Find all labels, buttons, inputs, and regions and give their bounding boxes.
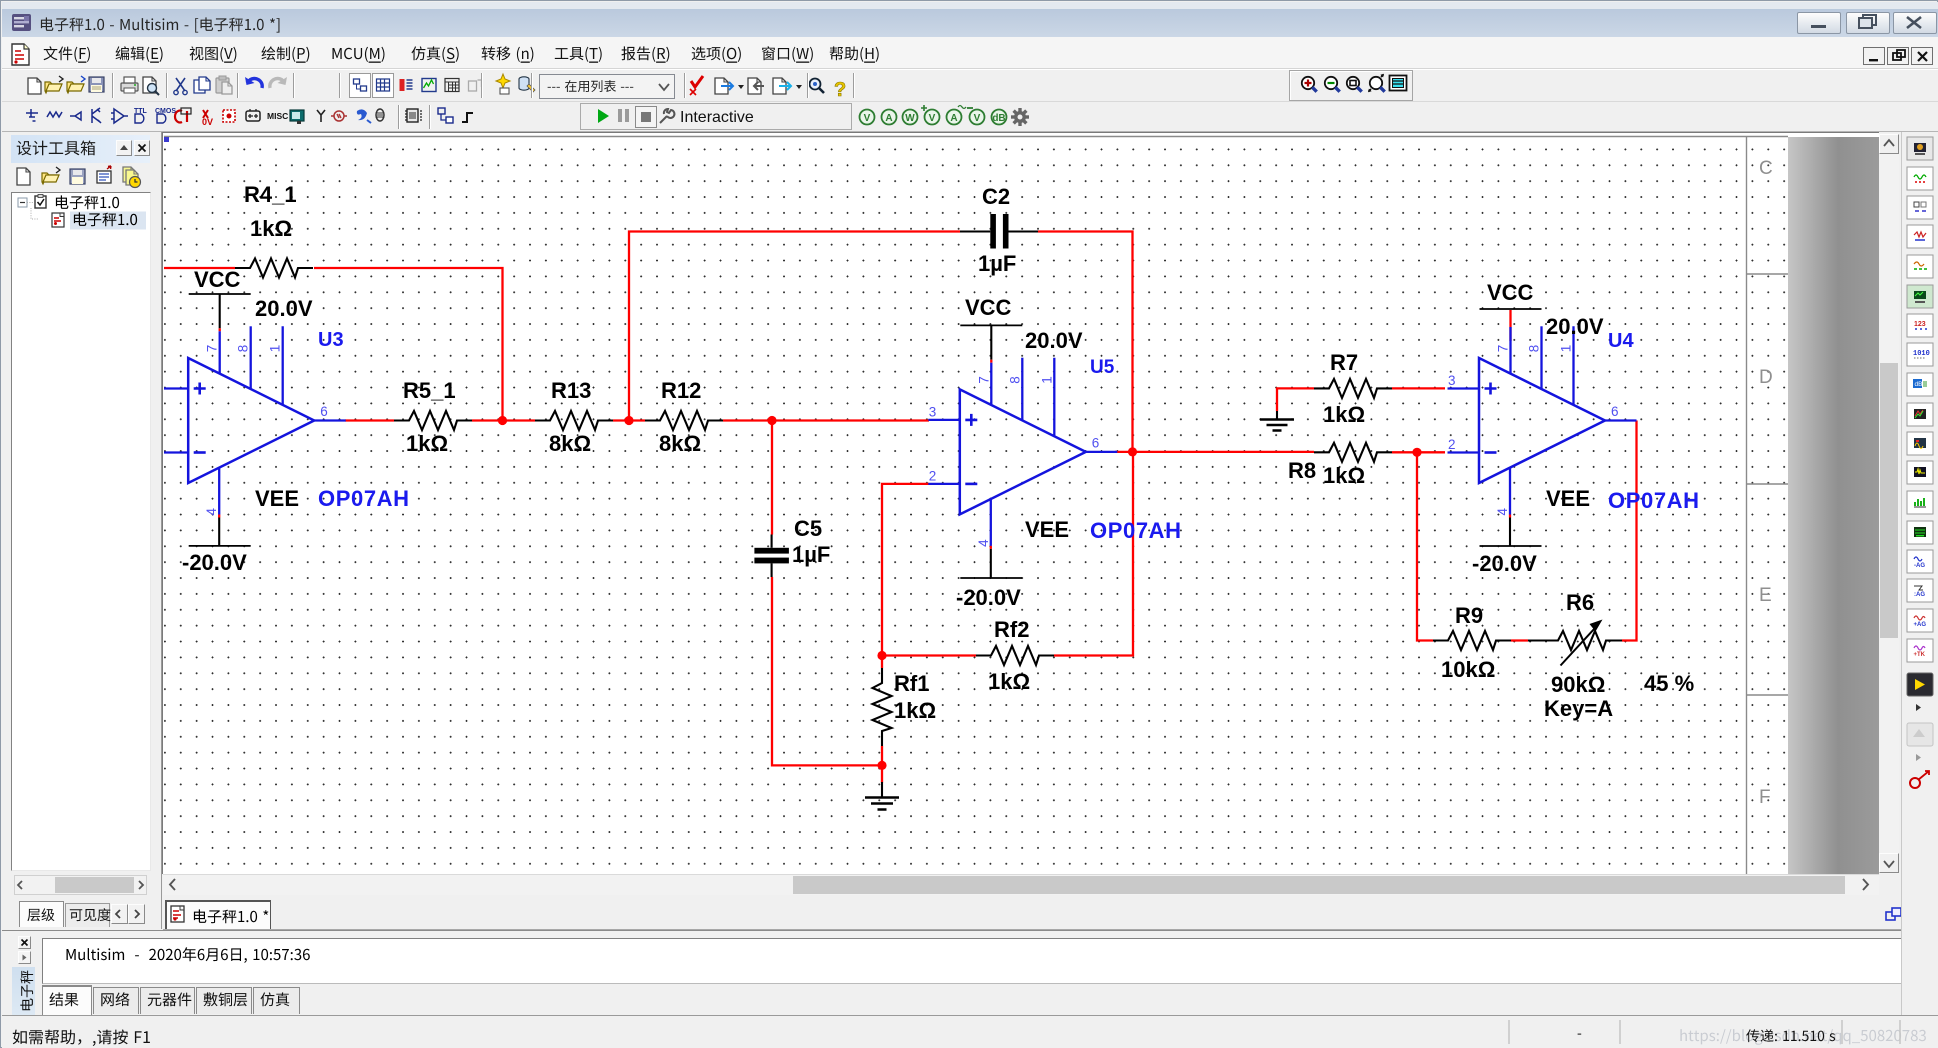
svg-text:R9: R9 (1455, 603, 1483, 628)
svg-text:3: 3 (1448, 373, 1456, 388)
svg-text:6: 6 (1092, 435, 1100, 450)
svg-text:7: 7 (976, 376, 991, 384)
svg-text:U5: U5 (1090, 357, 1115, 378)
wire: C2 to U5 output node (1038, 232, 1133, 452)
svg-text:OP07AH: OP07AH (1608, 488, 1700, 513)
svg-text:2: 2 (1448, 437, 1456, 452)
wire: node B up and over to C2 (629, 232, 960, 421)
power VEE -20.0V (U5) (956, 517, 1069, 610)
svg-text:-20.0V: -20.0V (1472, 551, 1537, 576)
status bar (2, 1015, 1938, 1048)
svg-text:R12: R12 (661, 378, 701, 403)
svg-text:7: 7 (1496, 345, 1511, 353)
power VCC 20.0V (U3) (189, 267, 313, 321)
wire: ground riser to R7 (1277, 388, 1314, 411)
wire: input net to R4_1 (164, 267, 235, 269)
svg-text:C2: C2 (982, 184, 1010, 209)
svg-text:3: 3 (929, 404, 937, 419)
op-amp U5 OP07AH (928, 325, 1181, 578)
wire: C5 bottom to Rf1 bottom node (772, 577, 882, 765)
svg-text:Rf1: Rf1 (894, 671, 929, 696)
ground (at R7) (1260, 411, 1294, 431)
svg-text:VEE: VEE (1025, 517, 1069, 542)
wire: U3 output to R5_1 (345, 419, 394, 421)
wire: feedback node to Rf1 top (881, 656, 883, 669)
capacitor C5 1µF (754, 516, 830, 577)
wire: R13 to node B to R12 (613, 419, 645, 421)
svg-text:8kΩ: 8kΩ (549, 431, 591, 456)
svg-text:1µF: 1µF (792, 542, 830, 567)
op-amp U4 OP07AH (1448, 326, 1700, 546)
resistor R5_1 1kΩ (394, 378, 472, 456)
svg-text:8: 8 (1527, 345, 1542, 353)
wire: Rf2 to U5 output node (1054, 452, 1133, 656)
wire: VCC to U4 pin7 (1509, 310, 1511, 341)
svg-text:4: 4 (204, 508, 219, 516)
svg-text:U3: U3 (318, 329, 344, 351)
svg-text:1kΩ: 1kΩ (894, 698, 936, 723)
svg-text:OP07AH: OP07AH (1090, 518, 1182, 543)
svg-text:8: 8 (1007, 376, 1022, 384)
power VEE -20.0V (U3) (182, 486, 299, 575)
wire: node C down to C5 (771, 421, 773, 535)
wire: R4_1 to node A vertical drop (314, 268, 503, 421)
canvas sheet with dot grid (162, 132, 1879, 874)
wire: R9 to R6 (1511, 639, 1528, 641)
svg-text:20.0V: 20.0V (1546, 314, 1604, 339)
svg-text:VCC: VCC (1487, 280, 1534, 305)
svg-text:6: 6 (1611, 404, 1619, 419)
svg-text:8kΩ: 8kΩ (659, 431, 701, 456)
op-amp U3 OP07AH (164, 294, 410, 546)
sheet tab (163, 895, 1938, 930)
wire: node D down to R9 (1417, 452, 1433, 640)
node gnd net junction (877, 761, 886, 770)
svg-text:R8: R8 (1288, 458, 1316, 483)
node A junction (498, 416, 507, 425)
node U5 out junction (1128, 447, 1137, 456)
left design toolbox panel (2, 132, 162, 929)
ground (below Rf1) (865, 782, 899, 810)
wire: R5_1 to node A to R13 (472, 419, 535, 421)
wire: R6 up to U4 output (1622, 421, 1637, 641)
resistor R7 1kΩ (1314, 350, 1392, 427)
capacitor C2 1µF (960, 184, 1038, 276)
svg-text:VCC: VCC (194, 267, 241, 292)
svg-text:10kΩ: 10kΩ (1441, 657, 1495, 682)
svg-text:R6: R6 (1566, 590, 1594, 615)
title bar (2, 2, 1938, 9)
svg-text:1kΩ: 1kΩ (1323, 402, 1365, 427)
toolbar row 1 (2, 69, 1938, 102)
wire: R8 to node D to U4 pin2 (1392, 451, 1445, 453)
spreadsheet view (2, 930, 1938, 1015)
resistor R8 1kΩ (1288, 443, 1392, 488)
svg-text:20.0V: 20.0V (255, 296, 313, 321)
resistor R4_1 1kΩ (235, 182, 313, 278)
svg-text:OP07AH: OP07AH (318, 486, 410, 511)
svg-text:R4_1: R4_1 (244, 182, 297, 207)
svg-text:R5_1: R5_1 (403, 378, 456, 403)
svg-text:20.0V: 20.0V (1025, 328, 1083, 353)
resistor Rf2 1kΩ (976, 617, 1054, 694)
svg-text:Rf2: Rf2 (994, 617, 1029, 642)
wire: ground node stub down (881, 765, 883, 782)
svg-text:1kΩ: 1kΩ (1323, 463, 1365, 488)
svg-text:1µF: 1µF (978, 251, 1016, 276)
svg-text:1: 1 (268, 345, 283, 353)
svg-text:-20.0V: -20.0V (182, 550, 247, 575)
svg-text:6: 6 (320, 404, 328, 419)
node D junction (1412, 448, 1421, 457)
node feedback junction (877, 651, 886, 660)
toolbar row 2 (2, 102, 1938, 132)
wire: R7 to U4 pin3 (1392, 387, 1445, 389)
power VCC 20.0V (U4) (1480, 280, 1604, 339)
node B junction (624, 416, 633, 425)
svg-text:R7: R7 (1330, 350, 1358, 375)
power VEE -20.0V (U4) (1472, 486, 1590, 576)
svg-text:45 %: 45 % (1644, 671, 1694, 696)
svg-text:2: 2 (929, 468, 937, 483)
svg-text:R13: R13 (551, 378, 591, 403)
svg-text:C5: C5 (794, 516, 822, 541)
svg-text:VCC: VCC (965, 295, 1012, 320)
svg-text:1kΩ: 1kΩ (250, 216, 292, 241)
svg-text:1kΩ: 1kΩ (406, 431, 448, 456)
svg-text:90kΩ: 90kΩ (1551, 672, 1605, 697)
wire: Rf1 bottom to ground node (881, 746, 883, 765)
resistor Rf1 1kΩ (873, 668, 937, 746)
svg-text:-20.0V: -20.0V (956, 585, 1021, 610)
resistor R12 8kΩ (645, 378, 723, 456)
svg-text:8: 8 (236, 345, 251, 353)
svg-text:1: 1 (1559, 345, 1574, 353)
svg-text:U4: U4 (1608, 330, 1634, 352)
resistor R13 8kΩ (535, 378, 613, 456)
menu bar (2, 37, 1938, 69)
power VCC 20.0V (U5) (960, 295, 1083, 353)
svg-text:1: 1 (1039, 376, 1054, 384)
svg-text:4: 4 (1495, 508, 1510, 516)
wire: U5 pin2 to feedback node (882, 484, 929, 657)
resistor R9 10kΩ (1433, 603, 1511, 682)
svg-text:7: 7 (205, 345, 220, 353)
potentiometer R6 90kΩ Key=A 45% (1528, 590, 1694, 721)
wire: R12 to node C to U5 pin3 (723, 419, 929, 421)
wire: feedback node to Rf2 (882, 654, 976, 656)
svg-text:1kΩ: 1kΩ (988, 669, 1030, 694)
svg-text:Key=A: Key=A (1544, 696, 1613, 721)
wire: U5 output to R8 (1115, 451, 1314, 453)
right instrument toolbar (1901, 132, 1938, 1015)
svg-text:4: 4 (976, 539, 991, 547)
node C junction (767, 416, 776, 425)
svg-text:VEE: VEE (255, 486, 299, 511)
svg-text:VEE: VEE (1546, 486, 1590, 511)
